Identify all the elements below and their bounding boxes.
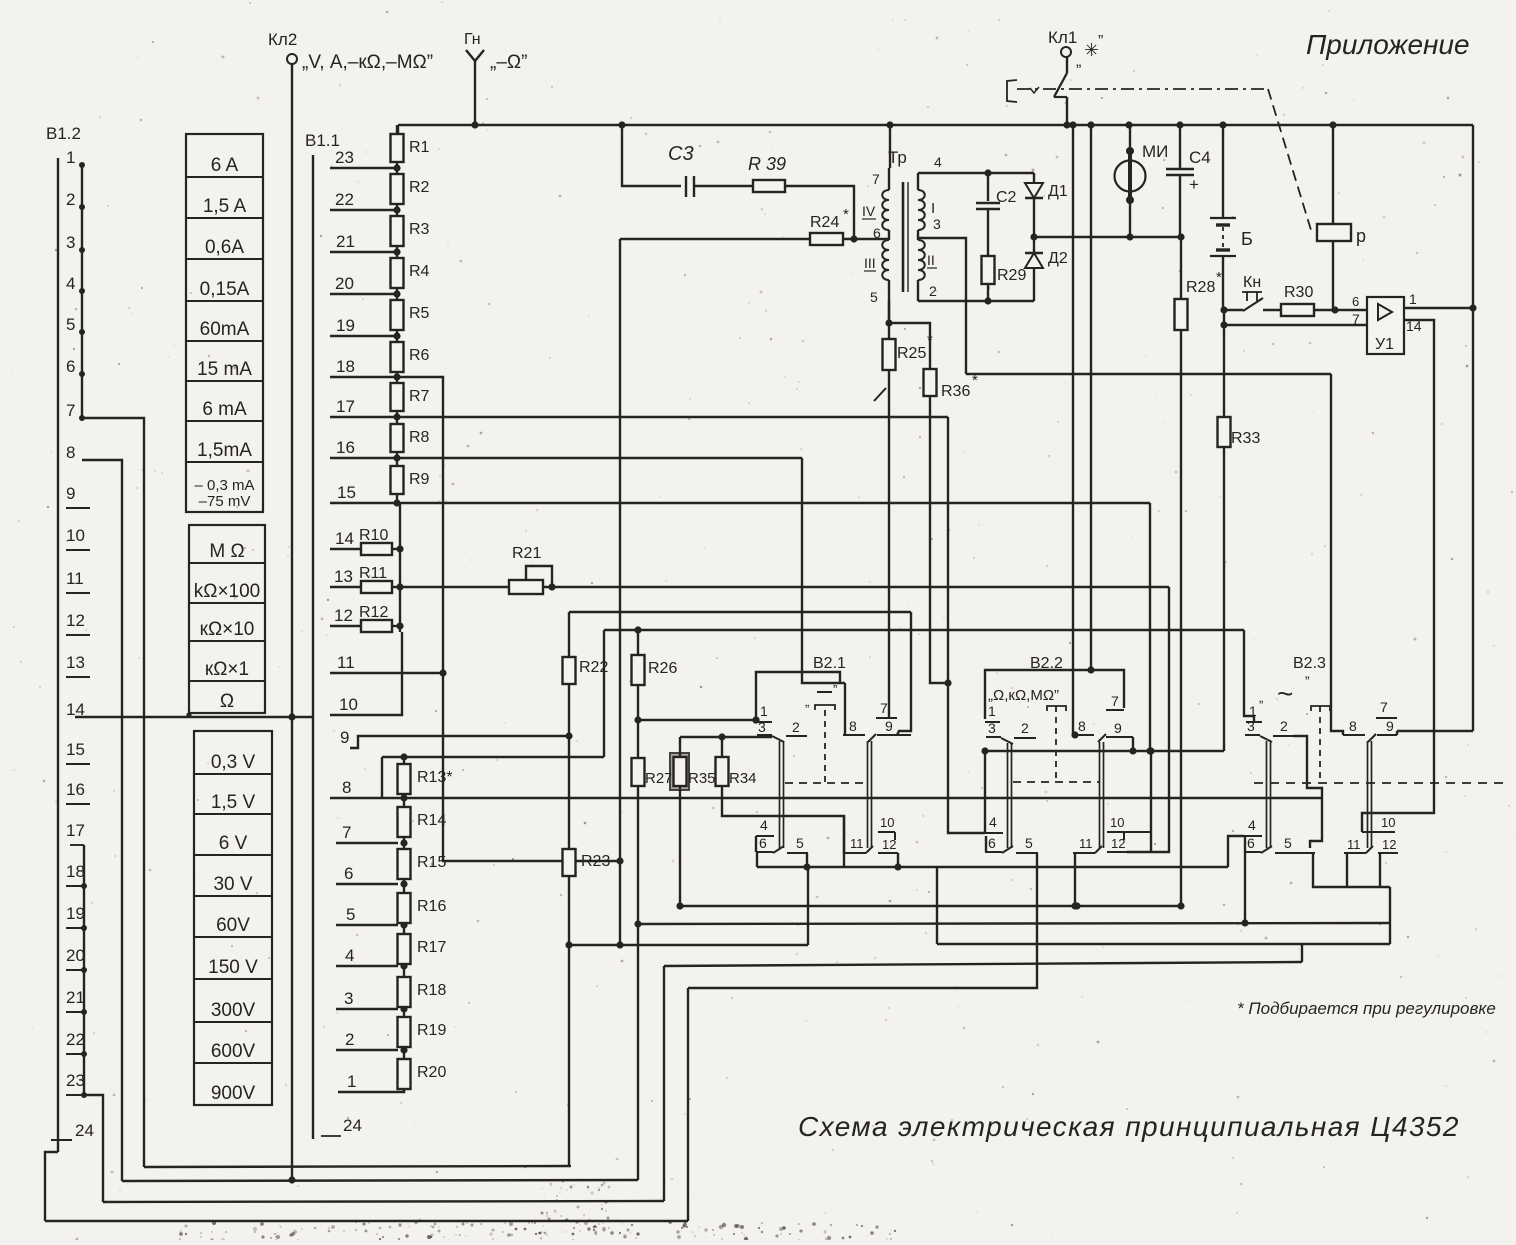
wire R13 top node bbox=[382, 756, 604, 758]
node B2.2 pin 5 bbox=[1016, 852, 1038, 854]
wire Tp pin7 to rail bbox=[889, 125, 891, 168]
svg-text:5: 5 bbox=[346, 905, 355, 924]
node B2.3 pin 3 bbox=[1245, 734, 1260, 736]
svg-text:R8: R8 bbox=[409, 429, 430, 446]
svg-text:600V: 600V bbox=[211, 1041, 256, 1062]
svg-text:7: 7 bbox=[342, 823, 351, 842]
switch Kl1 blade bbox=[1066, 57, 1068, 73]
svg-text:0,15А: 0,15А bbox=[200, 279, 250, 300]
diode D2 bbox=[1025, 252, 1043, 254]
node B2.1 pin 5 bbox=[787, 852, 808, 854]
svg-text:„: „ bbox=[1076, 53, 1081, 70]
wire nest line A bbox=[144, 1166, 571, 1167]
wire B1.2 pin8 to nest line B bbox=[82, 460, 122, 1181]
node B2.1 pin 3 bbox=[757, 734, 772, 736]
node B1.2 pin 11 bbox=[66, 569, 90, 593]
svg-text:24: 24 bbox=[75, 1121, 94, 1140]
resistor R29 bbox=[982, 256, 995, 284]
resistor R34 bbox=[716, 757, 729, 786]
wire right edge rail bbox=[1472, 125, 1474, 731]
svg-text:9: 9 bbox=[1386, 718, 1394, 734]
svg-text:12: 12 bbox=[882, 837, 896, 852]
svg-text:3: 3 bbox=[988, 720, 996, 736]
svg-text:R9: R9 bbox=[409, 471, 430, 488]
svg-text:6: 6 bbox=[1352, 294, 1359, 309]
node B2.1 pin 1 bbox=[756, 721, 772, 723]
wire Gn stem bbox=[474, 61, 476, 125]
resistor R2 bbox=[391, 174, 404, 204]
wire R34 bottom to B2.1 pin11 bbox=[722, 786, 844, 853]
wire B2.3 pin5 drop bbox=[1313, 853, 1390, 887]
wire top rail bbox=[398, 124, 1473, 126]
svg-text:4: 4 bbox=[66, 274, 75, 293]
wire chain R1-R9 links bbox=[396, 125, 398, 134]
svg-text:3: 3 bbox=[933, 216, 941, 232]
resistor R1 bbox=[391, 134, 404, 162]
svg-text:2: 2 bbox=[792, 719, 800, 735]
switch B2.1 mech bracket dashed bbox=[815, 705, 835, 710]
wiper B2.3 right bbox=[1368, 734, 1376, 742]
wire tap17 long line bbox=[330, 416, 948, 418]
svg-text:В2.3: В2.3 bbox=[1293, 655, 1326, 672]
node B2.2 pin 6 bbox=[985, 851, 1002, 853]
svg-text:R15: R15 bbox=[417, 854, 446, 871]
node B1.2 pin 12 bbox=[66, 611, 90, 635]
svg-text:”: ” bbox=[1098, 33, 1103, 50]
node B2.3 pin 12 bbox=[1378, 852, 1398, 854]
switch B1.1 bar bbox=[312, 155, 314, 1139]
wire diode junction to C4/R28 bbox=[1034, 236, 1181, 238]
node B1.2 pin 17 bbox=[66, 821, 85, 845]
wire tap15 long line bbox=[330, 502, 1150, 504]
svg-text:I: I bbox=[931, 200, 935, 217]
wire B2.1 bottom common bbox=[757, 866, 1228, 868]
wiper B2.2 left blade bottom bbox=[1002, 846, 1013, 853]
wire R23 bottom link bbox=[571, 944, 808, 946]
wire R36 down bbox=[930, 396, 948, 683]
svg-text:3: 3 bbox=[758, 719, 766, 735]
svg-text:15: 15 bbox=[66, 740, 85, 759]
resistor R23 bbox=[563, 849, 576, 876]
svg-text:С3: С3 bbox=[668, 143, 694, 165]
mechanical link dashed bbox=[1007, 80, 1017, 102]
svg-text:R34: R34 bbox=[729, 770, 757, 787]
svg-text:R25: R25 bbox=[897, 345, 926, 362]
wire net y944 bbox=[937, 943, 1390, 945]
svg-text:9: 9 bbox=[885, 718, 893, 734]
svg-text:Приложение: Приложение bbox=[1306, 29, 1470, 60]
relay P bbox=[1332, 125, 1334, 224]
svg-text:R21: R21 bbox=[512, 545, 541, 562]
node B1.2 pin 8 bbox=[66, 443, 75, 462]
svg-text:МИ: МИ bbox=[1142, 142, 1168, 161]
wire B2.3 pin8 feed bbox=[1331, 374, 1343, 735]
node B2.2 pin 3 bbox=[986, 736, 1001, 738]
table current ranges bbox=[186, 134, 263, 512]
resistor R26 bbox=[637, 630, 639, 655]
svg-text:13: 13 bbox=[66, 653, 85, 672]
stray mark bbox=[874, 388, 886, 401]
svg-text:R24: R24 bbox=[810, 214, 839, 231]
svg-text:R26: R26 bbox=[648, 660, 677, 677]
wire tap9 step bbox=[350, 736, 569, 748]
svg-text:13: 13 bbox=[334, 567, 353, 586]
svg-text:R16: R16 bbox=[417, 898, 446, 915]
svg-text:kΩ×100: kΩ×100 bbox=[194, 581, 261, 602]
wire net y906 bbox=[680, 905, 1181, 907]
wiper B2.2 right blade bottom bbox=[1095, 846, 1102, 853]
svg-text:18: 18 bbox=[336, 357, 355, 376]
diode D1 bbox=[1033, 173, 1035, 183]
svg-text:*: * bbox=[843, 206, 849, 223]
wire B1.1 taps 23-19 to chain bbox=[330, 167, 397, 169]
svg-text:Кл1: Кл1 bbox=[1048, 28, 1077, 47]
wire net y924 bbox=[638, 923, 1390, 924]
wiper B2.1 left bbox=[772, 736, 784, 742]
node B2.3 pin 9 bbox=[1377, 734, 1397, 736]
switch B2.1 quote marks bbox=[817, 691, 832, 693]
svg-text:6: 6 bbox=[66, 357, 75, 376]
svg-text:„V, А,–кΩ,–MΩ”: „V, А,–кΩ,–MΩ” bbox=[302, 52, 433, 73]
svg-text:„: „ bbox=[805, 694, 809, 709]
svg-text:Д2: Д2 bbox=[1048, 250, 1068, 267]
svg-text:30 V: 30 V bbox=[213, 874, 252, 895]
node B1.2 pin 14 bbox=[66, 700, 85, 719]
wire Kl2 down bbox=[291, 64, 293, 1180]
wire U1 pin14 bbox=[1362, 320, 1434, 832]
node B2.1 pin 6 bbox=[756, 851, 773, 853]
svg-text:3: 3 bbox=[1247, 718, 1255, 734]
svg-text:1,5 V: 1,5 V bbox=[211, 792, 256, 813]
table voltage ranges bbox=[194, 731, 272, 1105]
wire net y374 bbox=[966, 373, 1331, 375]
node B1.2 pin 2 bbox=[66, 190, 85, 210]
node B2.1 pin 2 bbox=[786, 735, 807, 737]
wire B1.2 pins 17-23 bus bbox=[83, 845, 85, 1095]
svg-text:R12: R12 bbox=[359, 604, 388, 621]
svg-text:5: 5 bbox=[796, 835, 804, 851]
wire nest line D bbox=[45, 1220, 688, 1222]
node B1.2 pin 19 bbox=[66, 904, 87, 931]
svg-text:22: 22 bbox=[335, 190, 354, 209]
wire Tp pin4 top bbox=[918, 172, 1034, 174]
svg-text:60mА: 60mА bbox=[200, 319, 250, 340]
node D1 D2 junction bbox=[1030, 233, 1037, 240]
svg-text:р: р bbox=[1356, 226, 1366, 246]
node B1.2 pin 21 bbox=[66, 988, 87, 1015]
resistor R22 bbox=[568, 612, 570, 657]
wire B2.2 pin11 drop bbox=[1074, 852, 1076, 906]
svg-text:7: 7 bbox=[872, 171, 880, 187]
wire chain R13-R20 links bbox=[403, 757, 405, 764]
svg-text:8: 8 bbox=[849, 718, 857, 734]
svg-text:24: 24 bbox=[343, 1116, 362, 1135]
svg-text:4: 4 bbox=[345, 946, 354, 965]
node B1.2 pin 16 bbox=[66, 780, 90, 804]
node B2.1 pin 11 bbox=[844, 852, 866, 854]
svg-text:+: + bbox=[1189, 175, 1199, 194]
node B2.3 pin 1 bbox=[1246, 721, 1262, 723]
switch B2.3 mech bracket dashed bbox=[1311, 706, 1330, 711]
svg-text:8: 8 bbox=[1349, 718, 1357, 734]
wire net y630 bbox=[604, 629, 1244, 631]
node B2.1 pin 10 bbox=[878, 831, 895, 833]
wire B1.2 pin7 to nest line A bbox=[82, 418, 144, 1167]
svg-text:9: 9 bbox=[66, 484, 75, 503]
svg-text:IV: IV bbox=[862, 203, 876, 219]
svg-text:60V: 60V bbox=[216, 915, 250, 936]
wire chain below R9 bbox=[396, 503, 398, 506]
wire taps 7-2 to chain bbox=[336, 842, 398, 844]
svg-text:1: 1 bbox=[760, 703, 768, 719]
svg-text:23: 23 bbox=[335, 148, 354, 167]
resistor R14 bbox=[398, 807, 411, 837]
resistor R7 bbox=[391, 383, 404, 411]
node B2.1 pin 9 bbox=[877, 734, 911, 736]
wire tap8 long line bbox=[330, 797, 1322, 799]
node B2.2 pin 11 bbox=[1073, 852, 1095, 854]
wire y612 net bbox=[569, 611, 911, 613]
node B2.2 pin 4 bbox=[985, 832, 1003, 834]
wire nest line C bbox=[103, 1201, 664, 1202]
resistor R6 bbox=[391, 342, 404, 372]
svg-text:R29: R29 bbox=[997, 267, 1026, 284]
resistor R20 bbox=[398, 1059, 411, 1089]
svg-text:4: 4 bbox=[989, 814, 997, 830]
svg-text:12: 12 bbox=[1382, 837, 1396, 852]
node B1.2 pin 18 bbox=[66, 862, 87, 889]
node B2.3 pin 4 bbox=[1244, 835, 1262, 837]
svg-text:R1: R1 bbox=[409, 139, 430, 156]
wiper B2.1 right blade bottom bbox=[866, 846, 873, 853]
table resistance ranges bbox=[189, 525, 265, 713]
wiper B2.3 left bbox=[1260, 736, 1272, 742]
resistor R16 bbox=[398, 893, 411, 923]
node B1.2 pin 10 bbox=[66, 526, 90, 550]
svg-text:3: 3 bbox=[66, 233, 75, 252]
svg-text:6: 6 bbox=[1247, 835, 1255, 851]
svg-text:2: 2 bbox=[929, 283, 937, 299]
svg-text:7: 7 bbox=[66, 401, 75, 420]
svg-text:6: 6 bbox=[873, 225, 881, 241]
resistor R36 bbox=[889, 323, 930, 369]
wire R35/R34 top to B2.1 pin3 bbox=[680, 736, 772, 738]
wire tap16 line bbox=[330, 457, 802, 459]
svg-text:У1: У1 bbox=[1375, 336, 1394, 353]
resistor R17 bbox=[398, 934, 411, 964]
svg-text:7: 7 bbox=[880, 700, 888, 716]
wiper B2.1 right bbox=[868, 734, 876, 742]
svg-text:2: 2 bbox=[66, 190, 75, 209]
svg-text:8: 8 bbox=[342, 778, 351, 797]
svg-text:5: 5 bbox=[66, 315, 75, 334]
resistor R18 bbox=[398, 977, 411, 1007]
svg-text:16: 16 bbox=[336, 438, 355, 457]
svg-text:12: 12 bbox=[334, 606, 353, 625]
svg-text:✳: ✳ bbox=[1084, 40, 1099, 60]
svg-text:В1.2: В1.2 bbox=[46, 124, 81, 143]
resistor R5 bbox=[391, 300, 404, 330]
switch B2.2 outline bbox=[985, 670, 1124, 719]
node B2.3 pin 10 bbox=[1378, 831, 1395, 833]
svg-text:– 0,3 mА: – 0,3 mА bbox=[194, 477, 254, 494]
wire B2.3 pin2 outline bbox=[1294, 736, 1322, 848]
svg-text:11: 11 bbox=[337, 653, 355, 672]
wire B2.2 pin10 feed bbox=[1150, 751, 1152, 852]
svg-text:R35: R35 bbox=[688, 770, 716, 787]
svg-text:”: ” bbox=[1305, 673, 1310, 689]
svg-text:12: 12 bbox=[66, 611, 85, 630]
svg-text:2: 2 bbox=[1280, 718, 1288, 734]
node B2.3 pin 6 bbox=[1244, 851, 1261, 853]
svg-text:19: 19 bbox=[66, 904, 85, 923]
wire R21 output line bbox=[543, 586, 1169, 588]
svg-text:R19: R19 bbox=[417, 1022, 446, 1039]
wire R26 bottom to B2.1 pin1 bbox=[638, 719, 756, 721]
svg-text:20: 20 bbox=[335, 274, 354, 293]
svg-text:R30: R30 bbox=[1284, 284, 1313, 301]
wire tap15 net drop bbox=[1149, 503, 1151, 751]
wiper B2.2 right bbox=[1098, 734, 1106, 742]
svg-text:1,5 A: 1,5 A bbox=[203, 196, 247, 217]
svg-text:11: 11 bbox=[66, 569, 84, 588]
node B2.3 pin 5 bbox=[1275, 852, 1315, 854]
node B2.3 pin 7 bbox=[1376, 717, 1397, 719]
node B2.2 pin 1 bbox=[985, 721, 1000, 723]
wire Tp pin2 bottom bbox=[918, 300, 1034, 302]
node B1.2 pin 3 bbox=[66, 233, 85, 253]
svg-text:6 V: 6 V bbox=[219, 833, 248, 854]
svg-text:11: 11 bbox=[850, 836, 864, 851]
svg-text:10: 10 bbox=[1110, 815, 1124, 830]
switch B2.2 mech bracket dashed bbox=[1047, 706, 1066, 711]
svg-text:кΩ×1: кΩ×1 bbox=[205, 659, 249, 680]
svg-text:R20: R20 bbox=[417, 1064, 446, 1081]
svg-text:Гн: Гн bbox=[464, 31, 481, 48]
svg-text:R18: R18 bbox=[417, 982, 446, 999]
resistor R3 bbox=[391, 216, 404, 246]
svg-text:R10: R10 bbox=[359, 527, 388, 544]
node B1.2 pin 20 bbox=[66, 946, 87, 973]
wire tap11 bbox=[330, 672, 443, 674]
wire nest line B bbox=[122, 1180, 638, 1181]
svg-text:M Ω: M Ω bbox=[209, 541, 244, 562]
wire tap10 to chain bbox=[330, 632, 402, 715]
node B2.1 pin 4 bbox=[756, 835, 774, 837]
svg-text:9: 9 bbox=[1114, 720, 1122, 736]
svg-text:~: ~ bbox=[1277, 678, 1293, 709]
node B1.2 pin 1 bbox=[66, 148, 85, 168]
wiper B2.2 left bbox=[1001, 738, 1013, 744]
resistor R9 bbox=[391, 466, 404, 494]
svg-text:7: 7 bbox=[1380, 699, 1388, 715]
wire B2.2 pin4 feed from tap17 bbox=[948, 417, 985, 833]
wire U1 pin1 bbox=[1404, 307, 1473, 309]
svg-text:5: 5 bbox=[1025, 835, 1033, 851]
wire vertical feeds from rail bbox=[1072, 125, 1074, 735]
wire Tp pin3 bbox=[918, 238, 966, 374]
svg-text:0,3 V: 0,3 V bbox=[211, 752, 256, 773]
node B1.2 pin 6 bbox=[66, 357, 85, 377]
svg-text:Д1: Д1 bbox=[1048, 183, 1068, 200]
svg-text:20: 20 bbox=[66, 946, 85, 965]
node B2.3 pin 11 bbox=[1344, 852, 1366, 854]
svg-text:6: 6 bbox=[344, 864, 353, 883]
svg-text:10: 10 bbox=[339, 695, 358, 714]
node B1.2 pin 7 bbox=[66, 401, 85, 421]
svg-text:II: II bbox=[927, 252, 935, 268]
wire tap18 branch bbox=[330, 376, 397, 378]
resistor R8 bbox=[391, 424, 404, 452]
wire tap1 to chain bbox=[338, 1089, 404, 1092]
node B2.1 pin 12 bbox=[878, 852, 898, 854]
wiper B2.3 left blade bottom bbox=[1261, 846, 1272, 853]
svg-text:Схема электрическая принципи: Схема электрическая принципиальная Ц4352 bbox=[798, 1111, 1460, 1142]
svg-text:14: 14 bbox=[335, 529, 354, 548]
svg-text:Кл2: Кл2 bbox=[268, 30, 297, 49]
svg-text:150 V: 150 V bbox=[208, 957, 258, 978]
node B1.2 pin 23 bbox=[66, 1071, 87, 1098]
svg-text:6: 6 bbox=[759, 835, 767, 851]
svg-text:8: 8 bbox=[66, 443, 75, 462]
svg-text:* Подбирается при регулировк: * Подбирается при регулировке bbox=[1237, 999, 1496, 1018]
svg-text:7: 7 bbox=[1111, 693, 1119, 709]
node B1.2 pin 5 bbox=[66, 315, 85, 335]
svg-text:Б: Б bbox=[1241, 229, 1253, 249]
resistor R4 bbox=[391, 258, 404, 288]
svg-text:R 39: R 39 bbox=[748, 154, 786, 174]
resistor R15 bbox=[398, 849, 411, 879]
wire B1.2 pin14 common bbox=[75, 716, 313, 718]
svg-text:6 mА: 6 mА bbox=[202, 399, 247, 420]
svg-text:„–Ω”: „–Ω” bbox=[490, 52, 527, 73]
switch B1.2 bar bbox=[57, 158, 59, 1152]
svg-text:22: 22 bbox=[66, 1030, 85, 1049]
svg-text:R28: R28 bbox=[1186, 279, 1215, 296]
svg-text:„Ω,кΩ,MΩ”: „Ω,кΩ,MΩ” bbox=[988, 687, 1059, 704]
wiper B2.3 right blade bottom bbox=[1366, 846, 1373, 853]
svg-text:17: 17 bbox=[66, 821, 85, 840]
svg-text:R7: R7 bbox=[409, 388, 430, 405]
svg-text:4: 4 bbox=[1248, 817, 1256, 833]
resistor R35 bbox=[670, 753, 689, 790]
wire B1.2 bottom step bbox=[45, 1152, 58, 1221]
wire net y965 bbox=[664, 962, 1302, 966]
svg-text:11: 11 bbox=[1079, 836, 1093, 851]
svg-text:R3: R3 bbox=[409, 221, 430, 238]
svg-text:R36: R36 bbox=[941, 383, 970, 400]
wire rail to R1 bbox=[397, 125, 399, 134]
svg-text:1: 1 bbox=[66, 148, 75, 167]
svg-text:R14: R14 bbox=[417, 812, 446, 829]
wire R24 left drop bbox=[619, 239, 621, 945]
resistor R27 bbox=[632, 758, 645, 786]
node B2.3 pin 2 bbox=[1273, 735, 1294, 737]
svg-text:11: 11 bbox=[1347, 837, 1361, 852]
wire net y887-x1390 bbox=[1389, 887, 1391, 944]
svg-text:Ω: Ω bbox=[220, 691, 234, 712]
svg-text:17: 17 bbox=[336, 397, 355, 416]
svg-text:15 mА: 15 mА bbox=[197, 359, 252, 380]
svg-text:4: 4 bbox=[760, 817, 768, 833]
svg-text:10: 10 bbox=[1381, 815, 1395, 830]
resistor R25 bbox=[883, 339, 896, 370]
svg-text:300V: 300V bbox=[211, 1000, 256, 1021]
svg-text:21: 21 bbox=[66, 988, 85, 1007]
svg-text:R6: R6 bbox=[409, 347, 430, 364]
svg-text:1: 1 bbox=[1409, 291, 1417, 307]
svg-text:2: 2 bbox=[1021, 720, 1029, 736]
